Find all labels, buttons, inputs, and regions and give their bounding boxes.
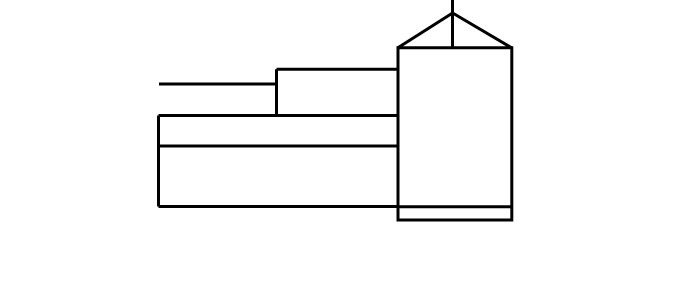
wire: roof left slope (398, 13, 453, 48)
wire: big left rectangle top edge (159, 114, 399, 117)
wire: big left rectangle inner line (159, 145, 399, 148)
wire: tall right rectangle outline (398, 48, 512, 220)
wire: big left rectangle bottom edge (159, 205, 399, 208)
wire: middle step rectangle top edge (277, 68, 399, 71)
wire: top-left horizontal segment (159, 83, 277, 86)
wire: big left rectangle left edge (157, 116, 160, 207)
wire: tall rectangle inner bottom line (398, 205, 512, 208)
wire: mast vertical line above roof (451, 0, 454, 48)
wire: middle step rectangle left edge (275, 69, 278, 115)
wire: roof right slope (453, 13, 512, 48)
